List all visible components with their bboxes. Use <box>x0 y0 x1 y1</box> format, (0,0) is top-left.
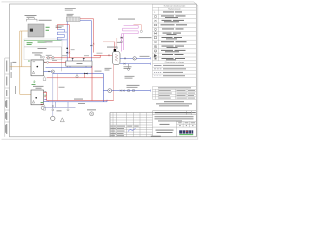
floor heating label <box>118 18 135 21</box>
bottom return end tick <box>106 100 108 102</box>
DHW pump <box>133 57 136 60</box>
cylinder inlet valve (black) <box>114 49 116 52</box>
pipe size label right <box>45 40 53 43</box>
riser return (blue) left <box>66 22 68 68</box>
cw valve 2 <box>123 90 125 92</box>
pump P2 on supply header <box>52 57 54 59</box>
bottom return line (blue) <box>49 101 107 103</box>
radiator AP1 <box>66 17 80 22</box>
boiler 2 return stub <box>44 100 49 102</box>
recirc labels <box>124 65 132 68</box>
cold water pump <box>108 89 112 93</box>
to floor manifold label <box>139 36 152 39</box>
pump P1 on supply header <box>47 57 49 59</box>
cylinder inlet riser <box>114 42 116 49</box>
project name cell text <box>155 116 194 125</box>
water meter <box>127 89 129 91</box>
spec table grid <box>153 87 197 100</box>
title block header row text <box>110 126 138 136</box>
boiler 2 <box>31 90 44 105</box>
water pipe label <box>38 47 47 50</box>
radiator supply run (red) <box>80 18 94 20</box>
riser return (blue) right <box>90 21 92 68</box>
flue pipe vertical 1 <box>19 31 21 94</box>
bottom line label <box>74 98 83 101</box>
room boundary <box>24 39 62 60</box>
return link (blue) <box>46 66 93 68</box>
cold water line <box>103 90 150 92</box>
line end ticks <box>149 57 151 91</box>
boiler 2 port marks <box>44 90 46 93</box>
page edge <box>2 2 198 139</box>
boiler 1 label <box>32 52 43 55</box>
riser supply (red) right <box>93 19 95 53</box>
riser supply (red) left <box>68 25 70 58</box>
title block outer <box>110 113 196 137</box>
second floor note <box>65 8 76 10</box>
DHW recirculation line <box>120 63 150 65</box>
floor drain label <box>87 108 96 111</box>
gas label <box>12 61 16 64</box>
flue rotated label <box>14 86 17 94</box>
chimney bracket <box>27 18 38 21</box>
bottom name cell text <box>156 130 174 133</box>
kopiroval note <box>151 135 161 138</box>
cw labels <box>127 84 140 87</box>
manifold return stubs <box>70 66 86 67</box>
balance dot on blue riser left <box>66 48 68 50</box>
boiler 2 supply stub <box>44 92 47 100</box>
drain loop line (blue) <box>44 106 76 108</box>
title block left grid <box>110 113 153 137</box>
expansion tank <box>51 116 55 120</box>
expansion tank fitting <box>52 109 54 111</box>
signature scribble <box>128 128 136 132</box>
expansion tank stem <box>52 74 54 117</box>
valve on red riser left <box>69 52 71 54</box>
water pipe (grey) <box>24 47 62 71</box>
pump labels <box>46 54 52 57</box>
boiler 1 fittings above <box>40 56 42 58</box>
fitting on return <box>76 74 78 76</box>
valve on red riser right <box>93 43 95 44</box>
bypass drop (pink) <box>56 74 58 101</box>
manifold <box>66 61 92 66</box>
flue pipe vertical 2 <box>21 31 23 67</box>
svg-text:Условные обозначения: Условные обозначения <box>164 6 186 8</box>
boiler 1 return run (blue) <box>44 72 53 74</box>
radiator return run (blue) <box>80 20 91 22</box>
manifold supply stubs <box>73 58 84 61</box>
DHW supply line <box>120 57 150 59</box>
boiler 2 flame triangle <box>32 100 34 103</box>
boiler 2 drain pentagon <box>43 105 46 110</box>
drain stub (blue) <box>67 102 69 108</box>
floor heating coil (magenta) <box>122 25 139 33</box>
floor heating risers (magenta) <box>121 34 123 52</box>
gas/flue branch to boiler 1 <box>10 66 31 68</box>
floor heating valve (black) <box>121 37 123 39</box>
drain cone <box>60 118 64 122</box>
gas pipe (green) <box>24 39 62 41</box>
tank label <box>105 67 112 70</box>
drop from manifold (red) <box>91 66 93 100</box>
manifold label <box>77 62 83 65</box>
boiler 1 drain pentagon <box>43 76 46 81</box>
radiator label <box>67 14 74 16</box>
boiler 2 burner dot <box>35 97 37 99</box>
svg-text:Обозначение на обвязке: Обозначение на обвязке <box>165 62 184 64</box>
DHW cylinder <box>112 52 120 65</box>
pump under boiler 2 <box>41 106 44 109</box>
recirc trap <box>128 64 130 69</box>
boiler control unit (grey cabinet) <box>28 24 44 37</box>
GVS note <box>125 75 135 78</box>
cabinet display <box>30 29 33 32</box>
valve on tank feed <box>108 55 110 57</box>
label near boiler2 <box>59 86 65 89</box>
legend table grid <box>153 4 197 77</box>
pump on boiler bus <box>47 61 49 63</box>
supply link to DHW line <box>94 55 113 58</box>
expansion tank label <box>57 109 62 112</box>
boiler 1 green symbol <box>34 81 35 83</box>
towel rail coil <box>57 30 64 40</box>
pipe tags <box>62 54 67 57</box>
boiler 2 green note <box>41 101 44 104</box>
legend line samples <box>154 65 186 76</box>
boiler 2 label <box>33 85 44 88</box>
flue pipe top run <box>20 30 28 32</box>
cw valve 1 <box>120 90 122 92</box>
return drop (blue) <box>102 74 104 102</box>
return pump <box>51 70 54 73</box>
room green note <box>27 41 33 44</box>
svg-text:Наименование: Наименование <box>168 9 180 11</box>
drawing frame <box>10 4 197 137</box>
drain stub 2 (blue) <box>55 102 57 108</box>
cabinet green labels <box>46 26 50 29</box>
floor heating fitting <box>121 41 123 43</box>
safety line (salmon) <box>103 41 115 43</box>
boiler 1 flame triangle <box>32 71 34 74</box>
DHW label <box>140 55 150 58</box>
long return line (blue) <box>53 73 104 75</box>
coil return drop (red) <box>113 64 115 100</box>
gas tick <box>28 60 30 63</box>
floor drain <box>90 112 94 116</box>
notes text block <box>156 101 192 106</box>
legend icons <box>154 12 157 59</box>
boiler 1 supply node <box>44 62 45 63</box>
gas pipe label <box>38 41 47 44</box>
air vent line (salmon) <box>134 25 142 31</box>
spec table text <box>158 87 195 98</box>
air vent <box>140 30 142 32</box>
bypass stub (red) <box>84 74 86 77</box>
valve on blue riser right <box>91 45 93 47</box>
air vent riser on tank <box>116 38 118 46</box>
expansion tank valve <box>52 105 54 107</box>
cylinder coil <box>115 54 118 61</box>
company logo <box>179 130 193 135</box>
safety group marks <box>116 41 121 44</box>
chimney size label <box>39 19 52 22</box>
DHW valve <box>124 58 126 60</box>
left margin attachment strip <box>5 58 10 137</box>
gas/flue branch to boiler 2 <box>20 93 31 95</box>
GVS label <box>107 46 117 49</box>
heating branch line (red) <box>47 77 104 79</box>
recirc valve <box>124 63 126 65</box>
towel rail supply line (red) <box>57 25 69 30</box>
legend row texts <box>161 12 188 61</box>
return label <box>95 70 102 73</box>
boiler 1 top mark <box>33 60 36 63</box>
towel rail outlet link <box>65 31 68 33</box>
bottom supply line (red) <box>47 100 114 102</box>
supply header (red) <box>46 57 100 59</box>
boiler 1 <box>31 60 44 76</box>
left strip rotated text <box>5 61 7 135</box>
towel rail bottom link <box>65 39 68 41</box>
rotated doc text inside frame left <box>10 62 13 78</box>
balancing valve (black) on return <box>84 73 87 75</box>
return valve <box>48 71 50 73</box>
valve on blue riser left <box>66 52 68 54</box>
towel rail label <box>56 26 64 28</box>
cw filter <box>133 90 135 92</box>
chimney label <box>25 15 37 18</box>
boiler bus (red) <box>45 61 68 63</box>
boiler 1 burner dot <box>37 66 39 68</box>
doc number cell <box>153 111 197 115</box>
lit/list/listov grid <box>153 122 197 137</box>
